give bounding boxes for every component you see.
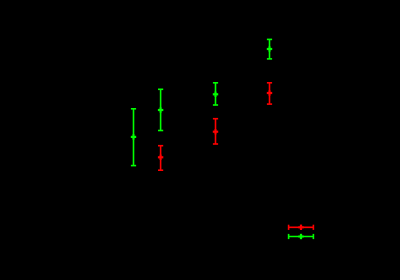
red errorbar point 4 (x=269.5) (267, 83, 272, 104)
green errorbar point 3 (x=215.5) (213, 83, 218, 105)
legend sample red series (289, 225, 314, 230)
green errorbar point 2 (x=160.6) (158, 89, 163, 130)
green errorbar point 1 (x=133.5) (131, 109, 136, 166)
legend sample green series (289, 234, 314, 239)
red errorbar point 3 (x=215.5) (213, 119, 218, 144)
green errorbar point 4 (x=269.5) (267, 39, 272, 59)
red errorbar point 2 (x=160.6) (158, 146, 163, 171)
